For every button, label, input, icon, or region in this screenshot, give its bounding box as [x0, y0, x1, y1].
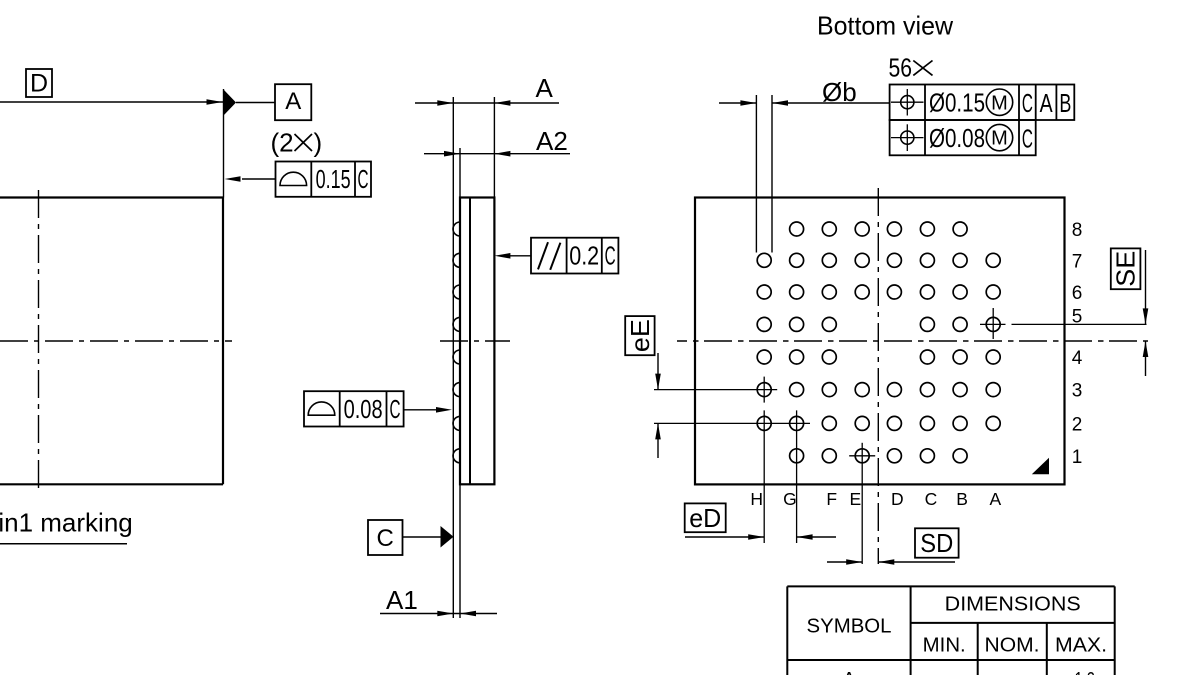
svg-text:1.2: 1.2	[1074, 669, 1095, 675]
svg-text:Bottom view: Bottom view	[817, 11, 953, 41]
svg-text:A1: A1	[386, 585, 418, 615]
svg-text:2: 2	[1072, 414, 1083, 435]
svg-text:C: C	[1022, 88, 1033, 118]
svg-text:0.08: 0.08	[344, 394, 383, 424]
svg-text:E: E	[850, 489, 862, 509]
svg-text:MIN.: MIN.	[923, 635, 966, 657]
svg-text:7: 7	[1072, 251, 1083, 272]
svg-text:Ø0.15: Ø0.15	[929, 88, 985, 118]
svg-text:NOM.: NOM.	[985, 635, 1040, 657]
svg-text:F: F	[826, 489, 837, 509]
svg-text:0.15: 0.15	[316, 164, 351, 194]
svg-text:M: M	[991, 92, 1008, 114]
svg-text:C: C	[358, 164, 369, 194]
svg-text:3: 3	[1072, 381, 1083, 402]
svg-text:C: C	[377, 525, 394, 552]
svg-text:eD: eD	[689, 503, 721, 533]
svg-text:4: 4	[1072, 348, 1083, 369]
svg-text:D: D	[891, 489, 904, 509]
svg-text:A2: A2	[536, 126, 568, 156]
svg-text:56: 56	[889, 52, 913, 82]
svg-text:1: 1	[1072, 447, 1083, 468]
svg-text:M: M	[991, 128, 1008, 150]
svg-text:DIMENSIONS: DIMENSIONS	[945, 594, 1081, 616]
svg-text:MAX.: MAX.	[1055, 635, 1107, 657]
svg-text:eE: eE	[625, 319, 655, 352]
svg-text:A: A	[1040, 88, 1053, 118]
svg-text:Ø0.08: Ø0.08	[929, 123, 985, 153]
svg-text:A: A	[842, 669, 856, 675]
svg-text:D: D	[30, 70, 48, 98]
svg-text:A: A	[990, 489, 1002, 509]
svg-text:SYMBOL: SYMBOL	[807, 616, 892, 638]
svg-text:): )	[314, 128, 323, 158]
svg-text:8: 8	[1072, 220, 1083, 241]
svg-text:C: C	[1022, 123, 1033, 153]
svg-text:B: B	[956, 489, 968, 509]
svg-text:A: A	[536, 73, 554, 103]
svg-text:C: C	[925, 489, 938, 509]
svg-text:SD: SD	[920, 528, 953, 558]
svg-text:5: 5	[1072, 307, 1083, 328]
svg-text:C: C	[605, 240, 616, 270]
svg-text:0.2: 0.2	[569, 240, 599, 270]
svg-text:Pin1 marking: Pin1 marking	[0, 508, 133, 538]
svg-text:H: H	[750, 489, 763, 509]
svg-text:B: B	[1059, 88, 1071, 118]
svg-text:Øb: Øb	[822, 77, 857, 107]
svg-text:A: A	[285, 88, 301, 115]
svg-text:(2: (2	[271, 128, 294, 158]
svg-text:C: C	[390, 394, 401, 424]
svg-text:SE: SE	[1111, 251, 1141, 287]
svg-text:G: G	[783, 489, 797, 509]
svg-text:6: 6	[1072, 283, 1083, 304]
